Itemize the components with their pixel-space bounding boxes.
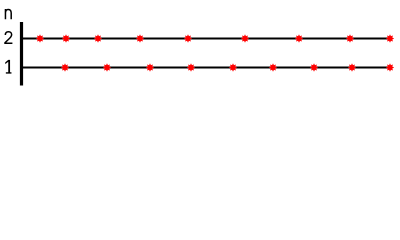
marker n=2 #4 — [136, 35, 144, 43]
marker n=1 #2 — [103, 64, 111, 72]
tick label 2 — [5, 32, 12, 44]
marker n=1 #6 — [269, 64, 277, 72]
marker n=1 #8 — [348, 64, 356, 72]
marker n=2 #3 — [94, 35, 102, 43]
marker n=2 #2 — [62, 35, 70, 43]
axis label n — [5, 9, 11, 19]
marker n=2 #9 — [386, 35, 394, 43]
marker n=2 #8 — [346, 35, 354, 43]
y-axis — [20, 22, 23, 86]
marker n=2 #6 — [241, 35, 249, 43]
marker n=1 #4 — [187, 64, 195, 72]
marker n=2 #1 — [36, 35, 44, 43]
marker n=1 #3 — [146, 64, 154, 72]
tick label 1 — [5, 60, 11, 74]
marker n=2 #5 — [184, 35, 192, 43]
marker n=1 #7 — [310, 64, 318, 72]
timeline n=1 — [20, 67, 390, 69]
marker n=2 #7 — [295, 35, 303, 43]
marker n=1 #5 — [229, 64, 237, 72]
marker n=1 #1 — [61, 64, 69, 72]
marker n=1 #9 — [386, 64, 394, 72]
timeline n=2 — [20, 38, 390, 40]
